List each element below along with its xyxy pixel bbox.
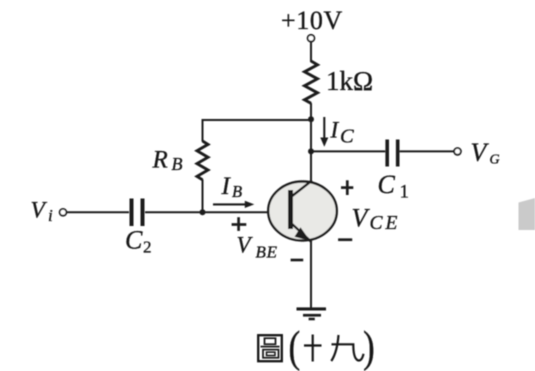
svg-text:C: C (378, 170, 396, 199)
svg-text:V: V (471, 138, 490, 167)
svg-text:1: 1 (400, 182, 410, 203)
svg-text:BE: BE (256, 243, 278, 262)
svg-text:I: I (330, 118, 340, 143)
svg-text:R: R (152, 147, 168, 174)
svg-text:V: V (31, 198, 48, 224)
svg-text:C: C (340, 126, 354, 148)
svg-text:CE: CE (370, 213, 401, 234)
svg-text:i: i (48, 206, 53, 225)
svg-text:): ) (363, 322, 375, 371)
svg-text:B: B (232, 182, 242, 201)
svg-text:C: C (125, 226, 143, 255)
svg-text:G: G (490, 153, 500, 168)
svg-text:V: V (352, 204, 371, 233)
svg-text:I: I (221, 173, 232, 200)
svg-text:2: 2 (143, 238, 152, 257)
svg-text:(: ( (289, 322, 301, 371)
svg-text:+10V: +10V (281, 6, 343, 35)
svg-text:V: V (237, 233, 254, 258)
svg-text:B: B (172, 154, 183, 174)
svg-text:1kΩ: 1kΩ (326, 66, 373, 96)
